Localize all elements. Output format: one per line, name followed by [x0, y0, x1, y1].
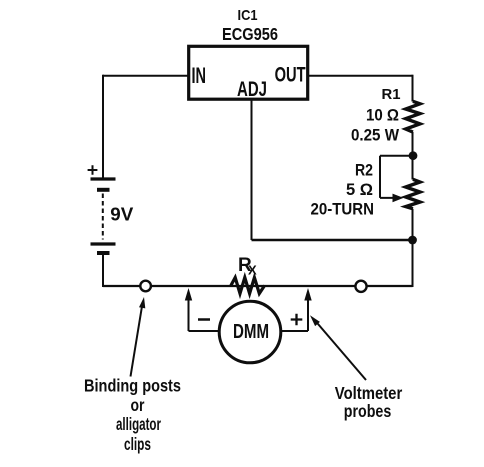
annotation arrow to voltmeter probe [315, 321, 366, 381]
battery BT1 dashed middle (more cells) [102, 194, 104, 240]
wire R2 wiper tie to junction [380, 156, 413, 198]
wire R2 down to bottom rail [412, 209, 414, 287]
svg-text:clips: clips [124, 434, 151, 454]
resistor RX zigzag [231, 278, 265, 294]
potentiometer R2 zigzag [406, 179, 420, 209]
battery BT1 short plate 1 [97, 188, 110, 192]
svg-text:X: X [248, 263, 257, 278]
wire probe left vertical [188, 298, 190, 331]
wire ADJ horizontal to junction [252, 239, 413, 241]
svg-text:0.25 W: 0.25 W [351, 126, 400, 145]
op-amp regulator U1 box (IC1 ECG956) [189, 46, 308, 99]
battery BT1 long plate 2 [91, 242, 116, 245]
wire ADJ pin vertical [251, 99, 253, 240]
junction node R1/R2 [409, 151, 418, 160]
svg-text:R1: R1 [382, 86, 401, 103]
voltmeter probe right arrowhead [304, 288, 311, 301]
wire right vertical top [412, 75, 414, 102]
wire left vertical down to battery [102, 75, 104, 179]
binding post left (open circle) [140, 281, 151, 292]
svg-text:ADJ: ADJ [237, 77, 267, 101]
wire IN pin to left [103, 75, 189, 77]
wire battery to bottom rail [102, 255, 104, 287]
wire between R1 and R2 [412, 132, 414, 180]
battery BT1 long plate 1 [91, 177, 116, 180]
battery BT1 plus sign [88, 165, 98, 175]
meter DMM circle [219, 301, 281, 363]
voltmeter probe left arrowhead [185, 288, 192, 301]
svg-text:Binding posts: Binding posts [84, 376, 181, 396]
label minus [198, 318, 210, 321]
wire probe left horizontal to DMM [189, 330, 221, 332]
svg-text:alligator: alligator [116, 414, 161, 434]
resistor R1 zigzag [406, 101, 420, 132]
svg-text:10 Ω: 10 Ω [366, 106, 399, 125]
svg-text:OUT: OUT [275, 64, 306, 87]
svg-text:DMM: DMM [233, 320, 269, 343]
potentiometer R2 wiper arrowhead [393, 194, 404, 203]
junction node ADJ feedback [408, 236, 417, 245]
svg-text:5 Ω: 5 Ω [346, 180, 373, 199]
svg-text:IN: IN [192, 63, 207, 88]
wire probe right vertical [307, 298, 309, 331]
wire OUT pin to right [308, 75, 413, 77]
annotation arrow to binding post [131, 305, 143, 377]
label plus [291, 314, 303, 326]
svg-text:or: or [131, 395, 145, 415]
binding post right (open circle) [355, 281, 366, 292]
svg-text:IC1: IC1 [238, 7, 258, 24]
svg-text:probes: probes [344, 401, 392, 421]
battery BT1 short plate 2 [97, 251, 110, 255]
svg-text:ECG956: ECG956 [222, 24, 278, 44]
wire bottom rail [103, 285, 413, 287]
svg-text:20-TURN: 20-TURN [311, 200, 375, 219]
svg-text:R2: R2 [355, 162, 373, 180]
svg-text:9V: 9V [110, 204, 134, 225]
wire probe right horizontal from DMM [281, 330, 309, 332]
svg-text:Voltmeter: Voltmeter [335, 383, 403, 403]
